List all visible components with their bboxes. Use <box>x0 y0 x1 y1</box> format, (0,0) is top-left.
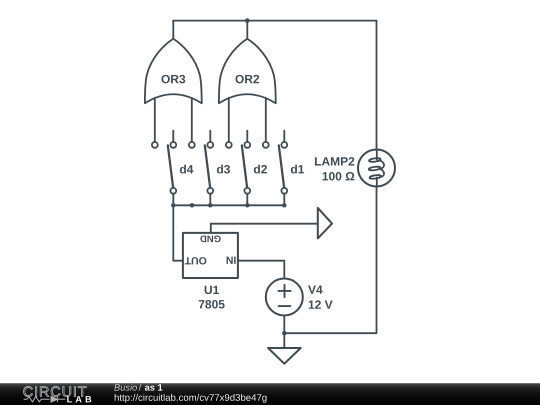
footer bar <box>0 383 540 405</box>
logo CIRCUIT <box>24 386 87 396</box>
regulator U1 <box>183 233 238 309</box>
wire top net <box>173 20 376 22</box>
wire V4 to ground <box>283 316 285 334</box>
footer title <box>114 384 137 391</box>
footer url <box>115 394 267 403</box>
switch d1 <box>279 131 304 206</box>
antenna triangle <box>318 208 332 239</box>
node bus d4 <box>171 203 175 207</box>
wire bus to OUT pin <box>173 205 183 260</box>
wire OR2 output <box>246 21 248 39</box>
wire lamp top <box>376 21 378 151</box>
terminal OR3 input 1 <box>152 142 158 148</box>
wire OR3 input 1 <box>154 98 156 142</box>
terminal OR2 input 2 <box>263 142 269 148</box>
switch d2 <box>242 131 267 206</box>
source V4 <box>266 279 333 316</box>
wire IN pin to V4 <box>238 261 284 279</box>
node bus d2 <box>245 203 249 207</box>
node junction top <box>245 18 250 23</box>
node bus d1 <box>282 203 286 207</box>
wire GND pin <box>211 224 318 233</box>
node ground junction <box>282 331 286 335</box>
wire OR2 input 1 <box>228 98 230 142</box>
logo LAB <box>67 396 91 402</box>
wire OR3 output <box>172 21 174 39</box>
wire bottom bus <box>173 204 284 206</box>
lamp LAMP2 <box>315 150 395 187</box>
wire OR3 input 2 <box>191 98 193 142</box>
logo squiggle resistor-diode <box>24 396 66 402</box>
or-gate OR3 <box>145 39 202 104</box>
ground <box>268 333 301 364</box>
wire OR2 input 2 <box>265 98 267 142</box>
switch d3 <box>205 131 230 206</box>
switch d4 <box>168 131 194 206</box>
terminal OR2 input 1 <box>226 142 232 148</box>
node bus d3 <box>208 203 212 207</box>
wire ground to lamp bottom <box>284 187 376 334</box>
terminal OR3 input 2 <box>189 142 195 148</box>
node bus mid <box>190 203 194 207</box>
or-gate OR2 <box>219 39 276 104</box>
